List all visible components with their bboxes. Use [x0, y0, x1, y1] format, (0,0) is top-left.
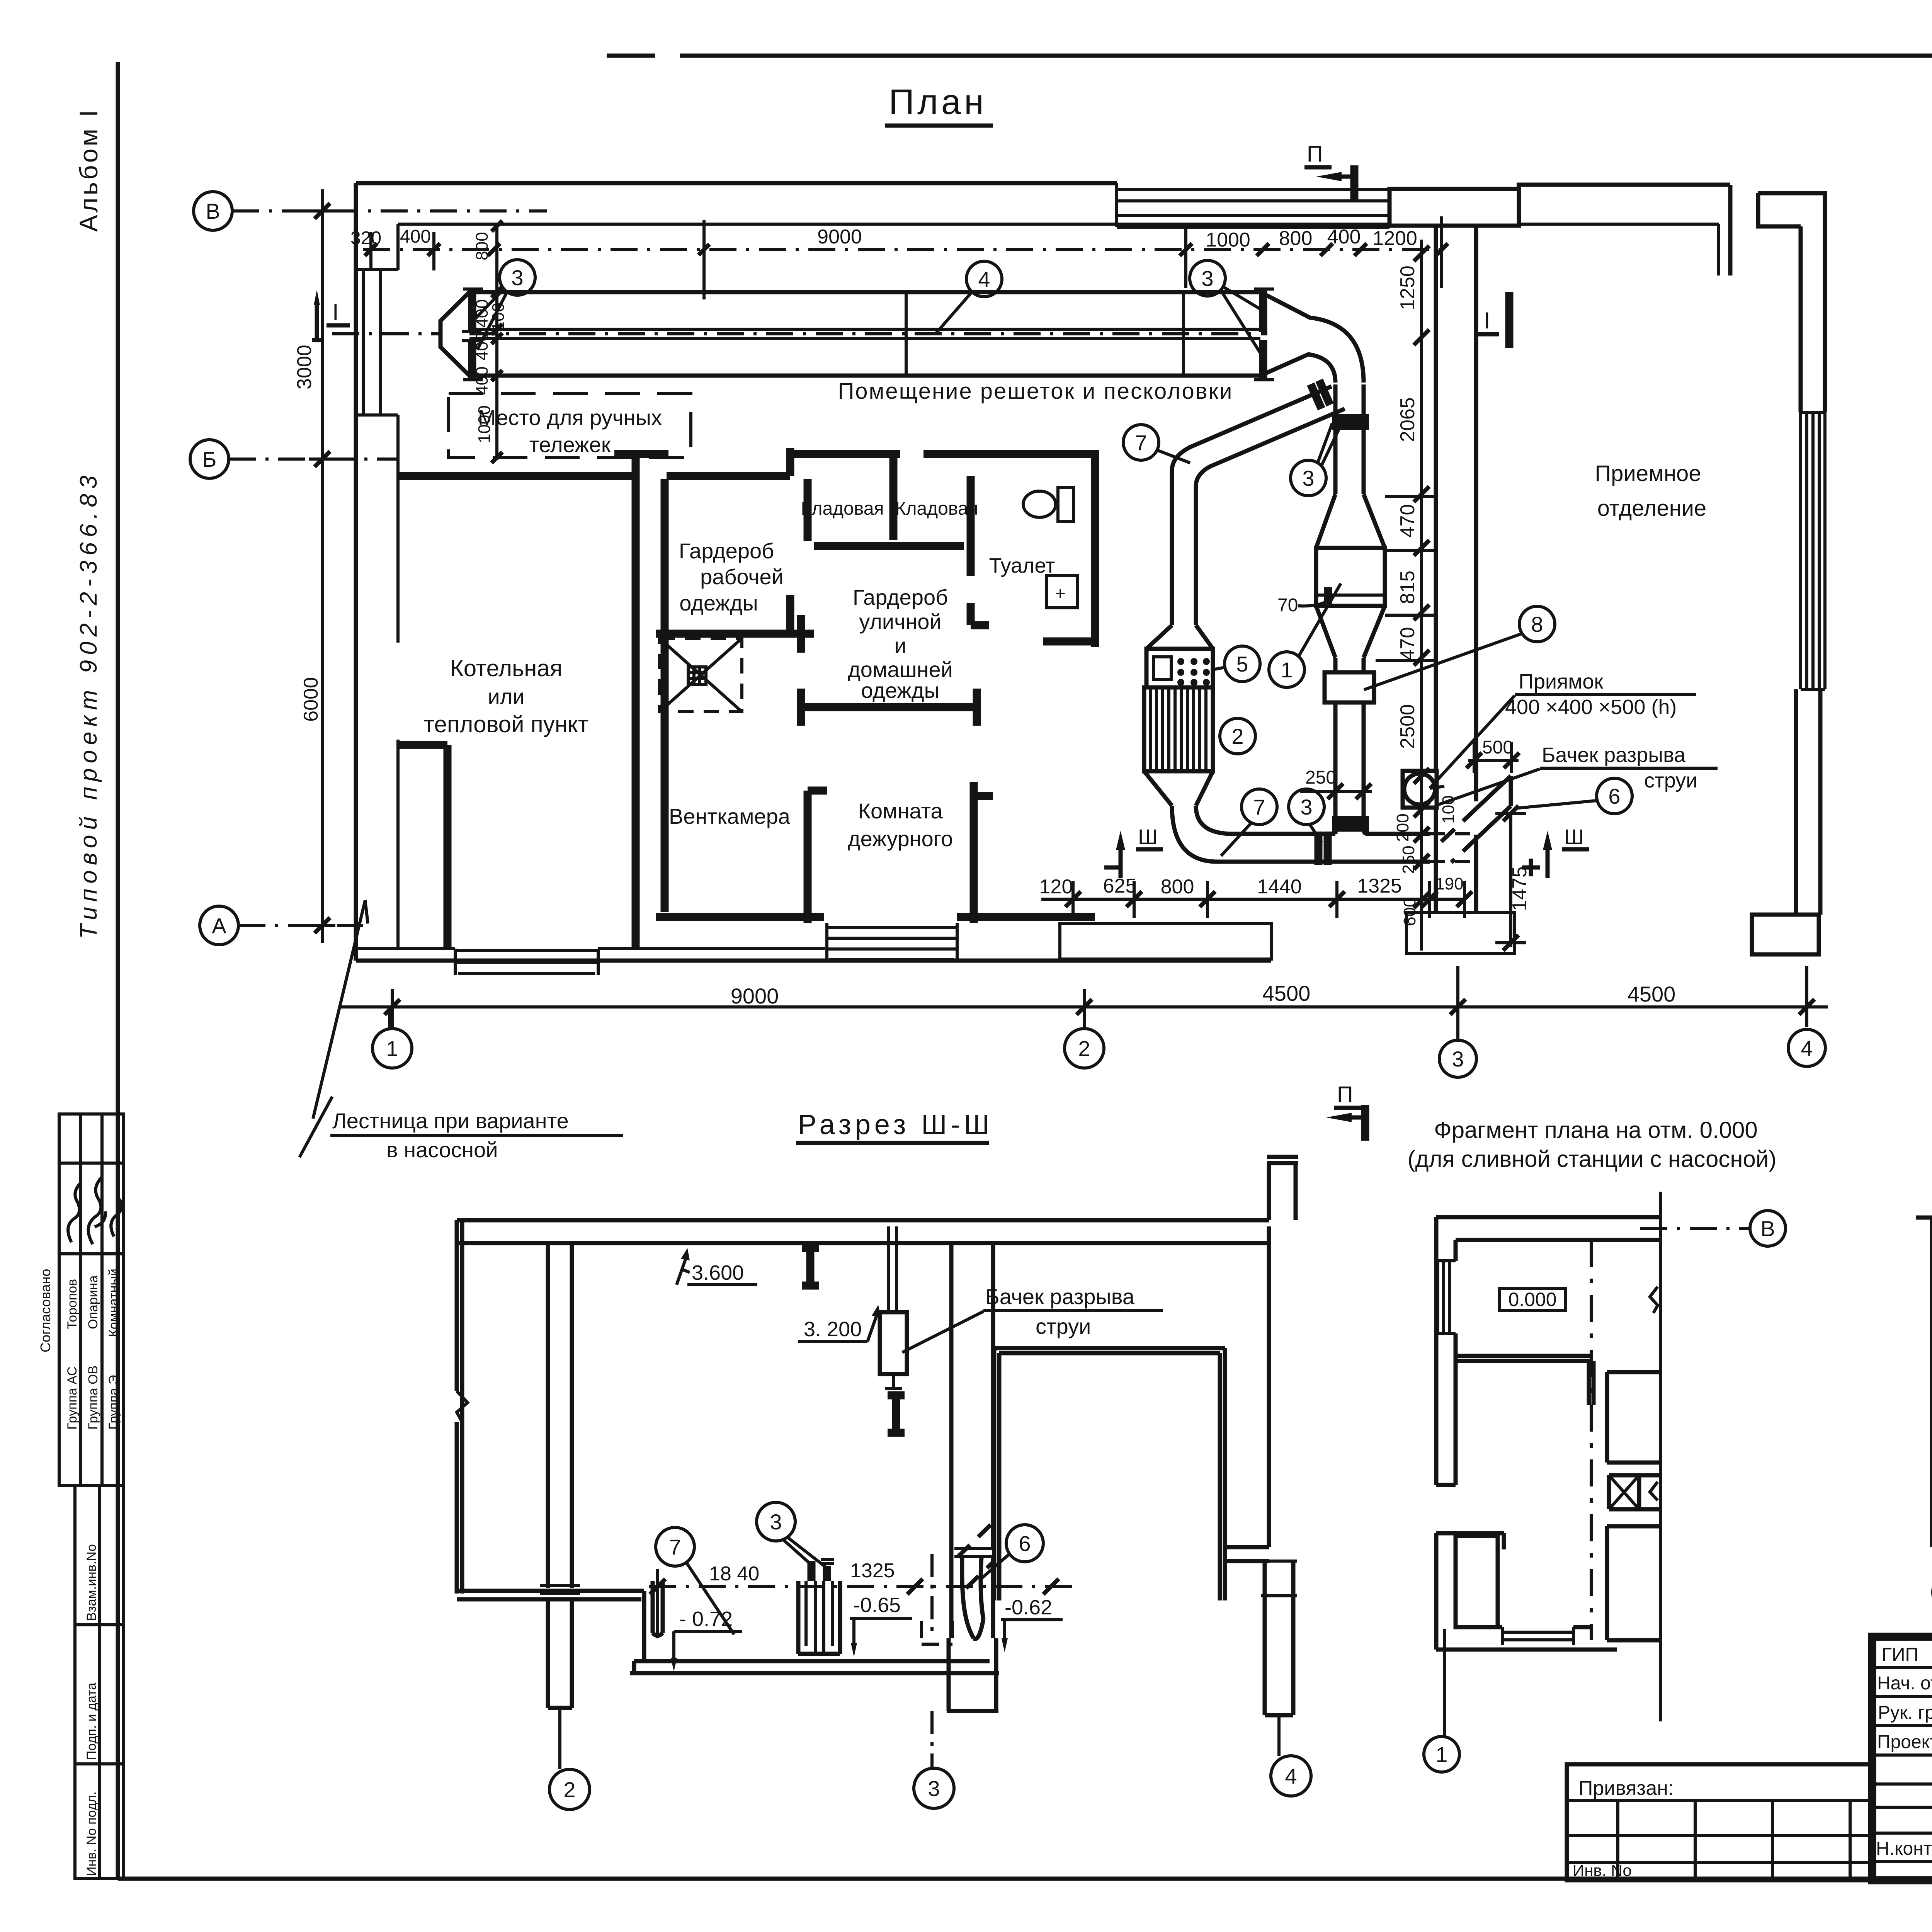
axis circle 2 [1065, 1029, 1104, 1068]
sluice gates at channel left [468, 288, 476, 381]
svg-text:200: 200 [1393, 813, 1412, 842]
left column foundation pier [548, 1599, 572, 1708]
axis circle 1 [372, 1029, 412, 1068]
svg-text:1250: 1250 [1396, 265, 1419, 310]
svg-text:1325: 1325 [1357, 875, 1402, 897]
svg-text:1000: 1000 [475, 405, 494, 443]
svg-text:Комната: Комната [858, 799, 943, 823]
svg-text:1325: 1325 [850, 1560, 895, 1582]
drop pipe lower [1335, 702, 1364, 816]
outer walls [1916, 1218, 1932, 1554]
left wall upper [1436, 1217, 1456, 1485]
equip circle 6 [1597, 778, 1632, 814]
svg-text:Группа АС: Группа АС [65, 1366, 80, 1430]
outer wall top outer face [356, 183, 1730, 276]
svg-text:9000: 9000 [731, 984, 779, 1008]
boiler vestibule wall [398, 745, 447, 947]
svg-text:3: 3 [770, 1510, 782, 1534]
right dim chain [1420, 240, 1423, 951]
svg-text:Кладовая: Кладовая [895, 498, 978, 519]
right lower room [1607, 1526, 1659, 1640]
door opening right room [994, 1348, 1225, 1600]
svg-text:Нач. отд.: Нач. отд. [1877, 1673, 1932, 1694]
unit 1 bottom cone [1316, 606, 1385, 658]
svg-text:одежды: одежды [679, 591, 758, 615]
svg-text:0.000: 0.000 [1508, 1289, 1556, 1310]
wardrobe work bottom wall [656, 615, 801, 653]
sluice gate at channel right [1259, 288, 1267, 381]
svg-text:Рук. гр.: Рук. гр. [1878, 1702, 1932, 1723]
top gate band [1117, 183, 1389, 227]
short pipe [1335, 658, 1364, 672]
dim 1475 line [1495, 813, 1526, 947]
receiving opening section dashed [957, 1522, 994, 1588]
svg-text:Туалет: Туалет [989, 554, 1055, 577]
svg-text:дежурного: дежурного [848, 827, 953, 851]
pit trough [798, 1581, 840, 1654]
svg-text:2065: 2065 [1396, 397, 1419, 442]
stamp outer border [1872, 1637, 1932, 1880]
svg-text:Бачек разрыва: Бачек разрыва [985, 1284, 1135, 1309]
svg-text:3: 3 [928, 1776, 940, 1801]
svg-text:Фрагмент плана на отм. 0.000: Фрагмент плана на отм. 0.000 [1434, 1117, 1758, 1143]
wc fixtures [1023, 491, 1056, 517]
stair shaft lower left [1436, 1533, 1504, 1650]
drop pipe right [1335, 384, 1364, 494]
svg-text:1000: 1000 [1206, 229, 1250, 251]
ventkamera / duty room walls [808, 782, 993, 923]
svg-text:-0.65: -0.65 [853, 1594, 901, 1617]
svg-text:В: В [1760, 1216, 1775, 1241]
svg-text:В: В [206, 199, 220, 223]
equip circle 8 [1519, 606, 1555, 642]
outer wall top inner face [398, 224, 1719, 276]
svg-text:и: и [894, 633, 906, 658]
right axis line [1659, 1192, 1662, 1721]
inlet funnel into pit [962, 1557, 983, 1639]
svg-text:Комнатный: Комнатный [106, 1269, 121, 1337]
svg-text:815: 815 [1396, 571, 1419, 604]
svg-text:3. 200: 3. 200 [804, 1318, 862, 1341]
svg-text:Привязан:: Привязан: [1578, 1777, 1673, 1799]
entry porch steps right [827, 923, 957, 962]
svg-text:3000: 3000 [293, 345, 316, 389]
svg-text:6: 6 [1608, 784, 1620, 808]
elevation box 0.000 [1499, 1288, 1565, 1311]
svg-text:Венткамера: Венткамера [669, 804, 791, 828]
svg-text:Ш: Ш [1564, 825, 1584, 849]
svg-text:Б: Б [202, 447, 217, 471]
stair note leader [313, 900, 368, 1119]
svg-text:8: 8 [1531, 612, 1543, 636]
svg-text:2: 2 [1078, 1036, 1090, 1061]
svg-text:1440: 1440 [1257, 876, 1302, 898]
signature table rows [1872, 1667, 1932, 1862]
circle 7 section [656, 1527, 694, 1566]
top dim line [363, 248, 1445, 251]
svg-text:уличной: уличной [859, 609, 941, 634]
svg-text:120: 120 [1039, 876, 1073, 898]
channel inlet funnel left [440, 292, 469, 376]
svg-text:Бачек разрыва: Бачек разрыва [1542, 743, 1686, 767]
jet-break tank plan circle [1404, 774, 1435, 804]
svg-text:I: I [332, 299, 339, 325]
west wall foundation block [1406, 913, 1515, 953]
svg-text:рабочей: рабочей [700, 565, 784, 589]
svg-text:400: 400 [473, 366, 492, 395]
axis4 east wall: top flange [1758, 193, 1825, 412]
floor left [457, 1591, 644, 1599]
inner wall horizontal [1456, 1356, 1591, 1361]
sheet left border [116, 62, 120, 1879]
svg-text:П: П [1307, 141, 1323, 167]
pantry block walls [790, 448, 964, 634]
svg-text:Кладовая: Кладовая [801, 498, 884, 519]
pit [630, 1591, 999, 1673]
svg-text:струи: струи [1036, 1314, 1091, 1338]
break marks [1650, 1287, 1658, 1500]
roof chimney [1269, 1163, 1296, 1220]
svg-text:План: План [889, 82, 987, 122]
svg-text:70: 70 [1277, 595, 1298, 616]
svg-text:Инв. No: Инв. No [1573, 1861, 1632, 1879]
equip circle 7 lower [1242, 789, 1277, 825]
svg-text:или: или [488, 684, 524, 709]
svg-text:250: 250 [1399, 845, 1418, 874]
middle column axis3 [951, 1243, 993, 1638]
equip circle 3 left [500, 260, 535, 295]
left dim line [309, 189, 335, 943]
ceiling slab [457, 1220, 1269, 1243]
axis circle 3 section [914, 1768, 954, 1808]
svg-text:П: П [1337, 1082, 1353, 1107]
right closet room [1607, 1372, 1659, 1463]
window hatch in left wall [1436, 1261, 1456, 1333]
svg-text:400: 400 [473, 332, 492, 360]
left wall [457, 1220, 462, 1594]
svg-text:7: 7 [1135, 430, 1147, 455]
ledge left of opening [954, 1549, 994, 1556]
svg-text:Подп. и дата: Подп. и дата [84, 1683, 99, 1760]
axis circle 2 section [549, 1769, 590, 1810]
equip circle 3 top right [1190, 260, 1225, 296]
svg-text:470: 470 [1396, 627, 1419, 661]
svg-text:отделение: отделение [1597, 496, 1707, 521]
svg-text:Гардероб: Гардероб [853, 585, 948, 609]
svg-text:I: I [1484, 308, 1490, 333]
axis V circle [194, 192, 232, 230]
left stamp table upper [37, 1114, 123, 1486]
container 8 [1325, 672, 1374, 702]
svg-text:Приямок: Приямок [1519, 670, 1603, 693]
outer top wall [1436, 1217, 1660, 1240]
svg-text:Н.контр: Н.контр [1876, 1838, 1932, 1859]
right sill [1225, 1547, 1269, 1561]
attached box left [1567, 1764, 1872, 1880]
svg-text:9000: 9000 [817, 226, 862, 248]
flange pair on drop pipe [1332, 418, 1369, 426]
bottom collector pipe [1217, 834, 1430, 862]
axis 1 circle [1424, 1736, 1459, 1772]
svg-text:5: 5 [1236, 652, 1248, 676]
manual screen 2 hatched [1144, 687, 1213, 771]
left outer wall [354, 183, 358, 961]
south wall pier below receiving [1060, 923, 1272, 959]
svg-text:тележек: тележек [529, 432, 611, 457]
svg-text:Опарина: Опарина [86, 1276, 100, 1329]
pantry2 / wc block [923, 450, 1095, 647]
equip circle 1 [1269, 652, 1304, 687]
svg-text:1: 1 [386, 1036, 398, 1061]
svg-text:2500: 2500 [1396, 704, 1419, 749]
right wall [1267, 1226, 1271, 1547]
svg-text:-0.62: -0.62 [1005, 1596, 1052, 1619]
svg-text:2: 2 [1231, 724, 1243, 748]
small dims left of channel [473, 232, 508, 443]
door sill stairs [1502, 1627, 1573, 1645]
svg-text:Котельная: Котельная [450, 655, 562, 681]
svg-text:625: 625 [1103, 875, 1137, 897]
svg-text:4500: 4500 [1262, 981, 1311, 1005]
equip circle 3 lower [1289, 789, 1324, 825]
svg-text:Инв. No подл.: Инв. No подл. [84, 1791, 99, 1876]
svg-text:1: 1 [1281, 658, 1293, 682]
svg-text:470: 470 [1396, 504, 1419, 538]
svg-text:1: 1 [1435, 1742, 1447, 1767]
equip circle 3 mid [1291, 460, 1326, 496]
rooms top wall [398, 472, 790, 480]
equip circle 4 [966, 261, 1002, 297]
pit 400x400 square [1403, 771, 1437, 808]
steel column symbols [802, 1248, 819, 1286]
svg-text:Взам.инв.No: Взам.инв.No [84, 1544, 99, 1621]
svg-text:800: 800 [473, 232, 492, 260]
svg-text:7: 7 [669, 1535, 681, 1559]
svg-text:500: 500 [1482, 737, 1513, 758]
svg-text:Согласовано: Согласовано [37, 1269, 53, 1352]
dim line 470-815-470 extension ticks [1376, 497, 1437, 660]
sand trap channel [469, 292, 1260, 376]
svg-text:600: 600 [1400, 898, 1419, 926]
flange pair lower [1332, 820, 1369, 828]
sheet bottom border [118, 1877, 1932, 1881]
svg-text:190: 190 [1435, 874, 1463, 893]
svg-text:Альбом I: Альбом I [74, 108, 103, 232]
svg-text:6: 6 [1019, 1531, 1031, 1556]
south outer wall [356, 959, 1271, 963]
unit 1 top cone [1316, 494, 1385, 548]
sheet top border [607, 54, 1932, 58]
channel grate lines [906, 292, 1184, 376]
chute 7 diagonal [1172, 386, 1345, 625]
svg-text:400: 400 [400, 226, 431, 247]
svg-text:струи: струи [1644, 769, 1697, 792]
svg-text:18 40: 18 40 [709, 1563, 759, 1585]
svg-text:Торопов: Торопов [65, 1279, 80, 1329]
axis4 foundation [1752, 915, 1819, 954]
svg-text:3.600: 3.600 [692, 1261, 744, 1284]
svg-text:3: 3 [1300, 795, 1312, 819]
axis3 column foundation [947, 1638, 998, 1711]
svg-text:Место для ручных: Место для ручных [478, 405, 662, 430]
svg-text:ГИП: ГИП [1882, 1645, 1918, 1665]
svg-text:1200: 1200 [1372, 227, 1417, 250]
flange on collector [1318, 832, 1328, 865]
perforated trough 5 head [1146, 649, 1213, 687]
svg-text:А: А [212, 913, 226, 938]
receiving hall west wall (double) [1434, 226, 1438, 912]
svg-text:3: 3 [1302, 466, 1314, 490]
svg-text:800: 800 [1279, 227, 1313, 250]
unit 1 body [1316, 548, 1385, 606]
handcart place dashed box [449, 394, 691, 457]
pit equipment pipes [653, 1581, 663, 1636]
svg-text:3: 3 [1452, 1047, 1464, 1071]
top wall block at receiving hall [1389, 189, 1519, 226]
svg-text:Приемное: Приемное [1595, 461, 1701, 486]
svg-text:3: 3 [511, 265, 523, 290]
pipe to collector [1335, 830, 1368, 834]
axis circle 3 [1439, 1040, 1476, 1077]
wardrobe street bottom wall [801, 689, 977, 726]
channel axis dashed [332, 332, 1267, 335]
interior column left [548, 1243, 572, 1588]
svg-text:Помещение решеток и песколов: Помещение решеток и песколовки [838, 379, 1233, 404]
bend west train [1172, 806, 1233, 862]
inner vertical wall axis dashed [1590, 1240, 1593, 1640]
svg-text:4500: 4500 [1628, 982, 1676, 1006]
circle 3 section [757, 1502, 795, 1541]
svg-text:320: 320 [350, 228, 381, 248]
receiving opening 6 chute [1476, 776, 1511, 838]
svg-text:800: 800 [1161, 876, 1194, 898]
svg-text:тепловой пункт: тепловой пункт [424, 711, 589, 737]
svg-text:4: 4 [1285, 1764, 1297, 1788]
svg-text:6000: 6000 [300, 677, 322, 722]
dashed pit outline mark [922, 1621, 952, 1644]
svg-text:Группа ОВ: Группа ОВ [86, 1366, 100, 1430]
axis B circle [190, 440, 229, 478]
axis circle 4 [1788, 1029, 1825, 1066]
equip circle 7 upper [1123, 425, 1159, 460]
vent shaft square [660, 638, 742, 712]
svg-text:2: 2 [563, 1777, 575, 1802]
svg-text:Лестница при варианте: Лестница при варианте [332, 1109, 569, 1133]
vent box with X [1609, 1475, 1659, 1509]
circle 6 section [1006, 1525, 1043, 1562]
svg-text:+: + [1055, 583, 1066, 604]
left stamp table lower [75, 1486, 123, 1879]
bottom wall with door [1436, 1627, 1617, 1650]
axis V circle [1750, 1211, 1786, 1246]
svg-text:4: 4 [978, 267, 990, 291]
equip circle 5 [1225, 646, 1260, 682]
svg-text:400: 400 [1327, 226, 1361, 248]
pipe through wall dashed [1430, 834, 1470, 862]
svg-text:4: 4 [1801, 1036, 1813, 1060]
svg-text:Проект.: Проект. [1877, 1732, 1932, 1752]
svg-text:(для сливной станции с насосн: (для сливной станции с насосной) [1408, 1146, 1777, 1172]
entry porch steps left [455, 949, 598, 975]
svg-text:одежды: одежды [861, 678, 940, 702]
jet break tank [880, 1312, 907, 1374]
svg-text:3: 3 [1201, 266, 1213, 291]
channel outlet funnel right [1260, 292, 1364, 383]
bottom axis circles and dim line 9000/4500/4500 [340, 966, 1828, 1039]
G_PLAN3 [1916, 1109, 1932, 1612]
svg-text:Гардероб: Гардероб [679, 539, 774, 563]
wall boiler-rooms (double) [636, 450, 665, 949]
axis4 column below [1265, 1561, 1293, 1715]
svg-text:400 ×400 ×500 (h): 400 ×400 ×500 (h) [1505, 696, 1677, 719]
svg-text:Разрез Ш-Ш: Разрез Ш-Ш [798, 1109, 993, 1140]
bottom interior dim row [1041, 881, 1464, 918]
axis A circle [200, 906, 238, 945]
tank supply pipe [889, 1226, 896, 1312]
svg-text:Типовой проект 902-2-366.83: Типовой проект 902-2-366.83 [75, 471, 102, 939]
svg-text:250: 250 [1305, 767, 1336, 788]
svg-text:7: 7 [1253, 795, 1265, 819]
svg-text:в насосной: в насосной [386, 1138, 498, 1162]
axis circle 4 section [1271, 1756, 1311, 1796]
svg-text:Ш: Ш [1138, 825, 1158, 849]
svg-text:Группа Э: Группа Э [106, 1375, 121, 1430]
axis4 east wall lower [1796, 689, 1820, 915]
left wall gate leaves [356, 270, 398, 415]
funnel into trough [1146, 625, 1213, 649]
equip circle 2 [1220, 718, 1255, 754]
flange on diagonal [1311, 380, 1330, 409]
funnel below screen [1144, 771, 1213, 806]
axis4 gate lines [1801, 412, 1825, 689]
rooms bottom wall [656, 913, 1095, 921]
